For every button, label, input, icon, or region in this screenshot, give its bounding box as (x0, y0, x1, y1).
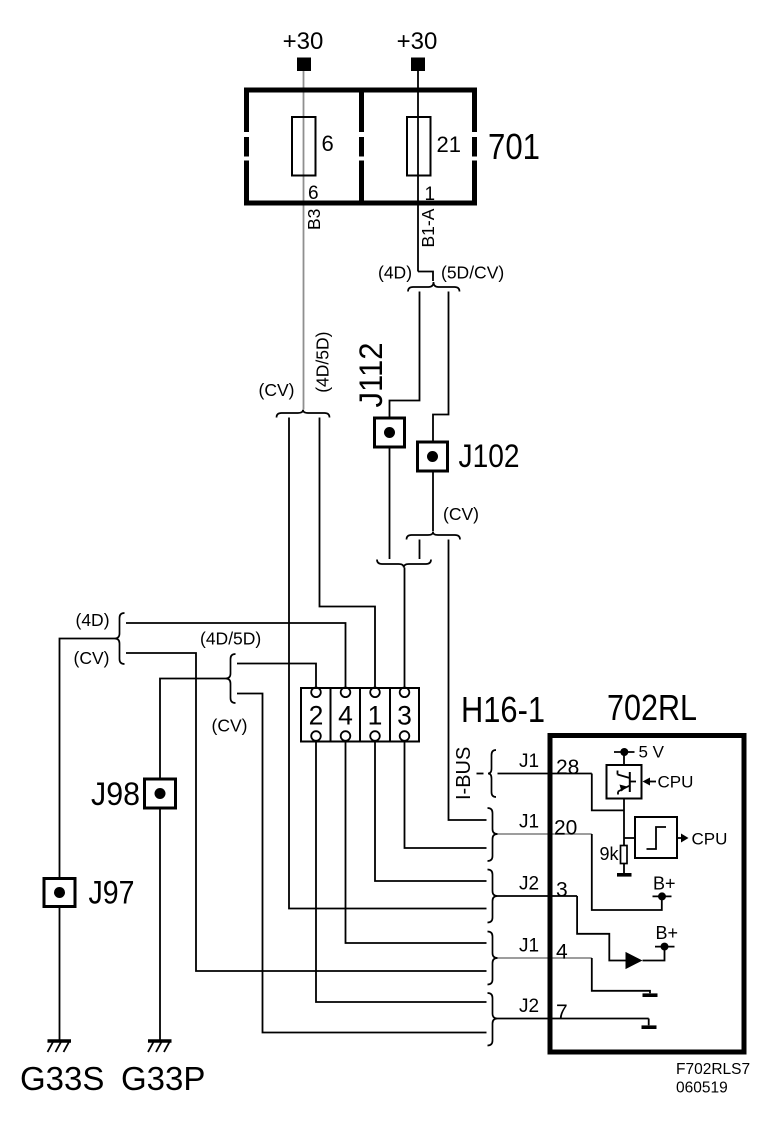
svg-text:B+: B+ (653, 874, 676, 894)
svg-text:J1: J1 (519, 751, 539, 772)
connector J102 (418, 442, 448, 471)
svg-text:702RL: 702RL (607, 687, 697, 728)
svg-text:1: 1 (368, 701, 383, 731)
+30 supply label 2 (397, 28, 438, 55)
wire row1 inside to optocoupler node (592, 774, 624, 811)
svg-text:CPU: CPU (658, 773, 694, 792)
wire CV branch down to row J1-4 (126, 653, 487, 971)
pin 6 label (308, 183, 319, 204)
label (4D/5D) at left merge 2 (200, 629, 261, 649)
label (CV) at J102 split (443, 504, 479, 524)
svg-text:3: 3 (556, 879, 568, 902)
row 1 split brace (I-BUS) (488, 750, 496, 797)
svg-text:(CV): (CV) (443, 504, 479, 524)
wire B3 4D/5D branch down to connector pin 1 (320, 418, 376, 688)
svg-text:4: 4 (338, 701, 353, 731)
step symbol inside comparator (647, 827, 667, 849)
input stage box U1 (607, 765, 642, 799)
connector pin circles top (311, 688, 409, 698)
drawing number F702RLS7 (676, 1061, 750, 1078)
wire split right branch (CV) long down to row J1-28 area (449, 540, 487, 821)
wire pin3 bottom to row J1-20 (405, 742, 487, 849)
row 5 pin number 7 (556, 1001, 568, 1024)
row 1 pin wire J1-28 (498, 773, 592, 775)
label (CV) at left merge 1 (74, 648, 110, 668)
fuse 6 body (292, 117, 316, 176)
+30 terminal square 1 (297, 58, 311, 72)
label J102 (459, 438, 520, 474)
fuse 21 body (407, 117, 431, 176)
connector J97 (44, 879, 75, 907)
svg-text:J97: J97 (89, 875, 135, 911)
internal ground bar row4 (643, 993, 658, 997)
row 3 pin number 3 (556, 879, 568, 902)
svg-text:(4D): (4D) (378, 263, 412, 283)
fuse holder box 701 bottom edge (244, 201, 477, 206)
wire J98 to ground (159, 808, 161, 1040)
label 701 (488, 126, 540, 167)
intermediate connector box 2-4-1-3 (301, 688, 419, 742)
CPU output arrow from comparator (677, 834, 689, 843)
wire J112 output down (389, 447, 391, 559)
row 2 merge brace (488, 808, 498, 861)
svg-text:J98: J98 (91, 776, 140, 812)
label J97 (89, 875, 135, 911)
label J112 (rotated) (353, 343, 389, 408)
svg-text:CPU: CPU (692, 830, 728, 849)
wire B1-A feed from +30 through fuse 21 (417, 71, 419, 272)
row 3 merge brace (488, 870, 498, 923)
svg-text:B3: B3 (304, 209, 324, 230)
wire 5D/CV branch down to J102 (433, 292, 449, 443)
svg-text:+30: +30 (397, 28, 438, 55)
svg-text:9k: 9k (599, 844, 619, 864)
wire amplifier to B+ node 2 (643, 951, 665, 961)
wire 5V to input stage box (623, 752, 625, 765)
row 5 merge brace (488, 993, 498, 1046)
row 5 label J2 (519, 996, 539, 1017)
connector J112 (375, 418, 405, 447)
wire row3 inside to output amplifier (577, 896, 625, 961)
wire B3 feed (gray) from +30 through fuse 6 down to variant split (303, 71, 305, 410)
label (CV) at B3 split (259, 380, 295, 400)
wire row2 inside to B+ node 1 (592, 834, 662, 910)
svg-text:J2: J2 (519, 996, 539, 1017)
connector J98 (145, 779, 176, 808)
label (5D/CV) (441, 263, 504, 283)
label J98 (91, 776, 140, 812)
svg-text:060519: 060519 (676, 1080, 728, 1097)
label G33S (20, 1060, 104, 1097)
wire J97 to ground (59, 907, 61, 1041)
label (4D) at left merge 1 (76, 610, 110, 630)
variant split brace under B1-A (408, 282, 460, 292)
wire CV branch down to row J2-7 (237, 694, 487, 1033)
ECU box 702RL (550, 736, 744, 1053)
label (4D/5D) rotated at B3 split (313, 332, 333, 393)
wire U1 down through node to 9k resistor (623, 799, 625, 846)
B+ node 2 dot and tick (655, 943, 675, 951)
svg-text:4: 4 (556, 941, 568, 964)
internal ground bar row5 (642, 1025, 657, 1029)
variant split brace under B3 (277, 410, 330, 418)
5 V supply dot and tick (614, 748, 635, 756)
fuse holder box 701 right edge (dashed) (472, 88, 477, 206)
fuse holder box 701 middle divider (dashed) (359, 88, 364, 206)
wire node to comparator input (624, 837, 635, 839)
comparator box (schmitt) (635, 817, 677, 858)
label B+ node 2 (656, 923, 679, 943)
label I-BUS (rotated) (453, 747, 475, 800)
svg-text:J1: J1 (519, 936, 539, 957)
svg-text:5 V: 5 V (639, 743, 665, 762)
wire J102 output down (432, 471, 434, 532)
fuse holder box 701 top edge (244, 88, 477, 93)
svg-text:(4D/5D): (4D/5D) (313, 332, 333, 393)
row 4 label J1 (519, 936, 539, 957)
row 4 pin number 4 (556, 941, 568, 964)
wire label B1-A (418, 208, 438, 247)
wire pin1 bottom to row J2-3 (375, 742, 487, 882)
label CPU (comparator) (692, 830, 728, 849)
wire merge1 input to J97 drop (60, 639, 115, 879)
svg-text:(CV): (CV) (74, 648, 110, 668)
svg-text:J1: J1 (519, 812, 539, 833)
label G33P (121, 1060, 205, 1097)
pin 1 label (425, 184, 436, 205)
connector cell labels 2 4 1 3 (309, 701, 412, 731)
row 2 pin wire J1-20 (gray) (498, 833, 592, 835)
svg-text:F702RLS7: F702RLS7 (676, 1061, 750, 1078)
row 2 pin number 20 (554, 817, 577, 840)
row 1 pin number 28 (556, 756, 579, 779)
wire 4D branch down to J112 (390, 292, 420, 419)
wire 4D/5D branch to connector pin 2 (237, 664, 316, 688)
svg-text:(4D): (4D) (76, 610, 110, 630)
connector pin circles bottom (311, 731, 409, 741)
fuse holder box 701 left edge (dashed) (244, 88, 249, 206)
wire pin4 bottom to row J1-4 (346, 742, 487, 944)
label 702RL (607, 687, 697, 728)
fuse 21 value label (437, 132, 461, 157)
svg-text:J2: J2 (519, 874, 539, 895)
wire merged output down to connector pin 3 (404, 568, 406, 688)
+30 supply label 1 (283, 28, 324, 55)
label (CV) at left merge 2 (212, 716, 248, 736)
wire B1-A jog to split (418, 272, 433, 282)
svg-text:21: 21 (437, 132, 461, 157)
label H16-1 (461, 689, 545, 730)
drawing date 060519 (676, 1080, 728, 1097)
label 9k (599, 844, 619, 864)
transistor symbol inside U1 (618, 771, 637, 795)
svg-text:28: 28 (556, 756, 579, 779)
wire row5 inside to internal ground 3 (648, 1019, 650, 1026)
svg-text:20: 20 (554, 817, 577, 840)
output amplifier triangle (626, 952, 643, 969)
wire row4 inside to internal ground 2 (592, 958, 650, 993)
svg-text:J102: J102 (459, 438, 520, 474)
label 5 V (639, 743, 665, 762)
B+ node 1 dot and tick (653, 892, 672, 900)
row 4 merge brace (488, 932, 498, 985)
left merge brace 1 (to J97) (115, 613, 125, 664)
row 4 pin wire J1-4 (gray) (498, 957, 592, 959)
svg-text:701: 701 (488, 126, 540, 167)
row 5 pin wire J2-7 (498, 1018, 649, 1020)
wire label B3 (304, 209, 324, 230)
svg-text:G33P: G33P (121, 1060, 205, 1097)
resistor 9k body (621, 846, 628, 864)
row 1 label J1 (519, 751, 539, 772)
label B+ node 1 (653, 874, 676, 894)
svg-text:I-BUS: I-BUS (453, 747, 475, 800)
ground G33P symbol (148, 1041, 172, 1052)
svg-text:+30: +30 (283, 28, 324, 55)
fuse 6 value label (322, 131, 334, 156)
svg-text:2: 2 (309, 701, 324, 731)
variant split brace below J102 (407, 532, 461, 540)
svg-text:(5D/CV): (5D/CV) (441, 263, 504, 283)
svg-text:6: 6 (322, 131, 334, 156)
+30 terminal square 2 (411, 58, 425, 72)
label CPU (input stage) (658, 773, 694, 792)
left merge brace 2 (to J98) (226, 654, 236, 703)
svg-text:3: 3 (397, 701, 412, 731)
svg-text:J112: J112 (353, 343, 389, 408)
wire split left branch down to merge (419, 540, 421, 560)
row 2 label J1 (519, 812, 539, 833)
svg-text:H16-1: H16-1 (461, 689, 545, 730)
internal ground bar under 9k (617, 873, 632, 877)
svg-text:B1-A: B1-A (418, 208, 438, 247)
wire 9k to internal ground (623, 864, 625, 874)
wire B3 CV branch down to row J2-3 (289, 418, 487, 909)
wire merge2 input to J98 drop (160, 679, 226, 780)
label (4D) (378, 263, 412, 283)
svg-text:7: 7 (556, 1001, 568, 1024)
I-BUS dashed stub (477, 773, 484, 775)
row 3 label J2 (519, 874, 539, 895)
svg-text:(CV): (CV) (212, 716, 248, 736)
row 3 pin wire J2-3 (498, 895, 578, 897)
ground G33S symbol (48, 1041, 72, 1052)
svg-text:(CV): (CV) (259, 380, 295, 400)
variant merge brace above pin 3 wire (377, 560, 431, 568)
wire 4D branch to connector pin 4 (126, 623, 346, 688)
svg-text:G33S: G33S (20, 1060, 104, 1097)
CPU arrow into U1 (643, 778, 657, 786)
svg-text:1: 1 (425, 184, 436, 205)
svg-text:(4D/5D): (4D/5D) (200, 629, 261, 649)
svg-text:6: 6 (308, 183, 319, 204)
wire pin2 bottom to row J2-7 (316, 742, 487, 1003)
svg-text:B+: B+ (656, 923, 679, 943)
